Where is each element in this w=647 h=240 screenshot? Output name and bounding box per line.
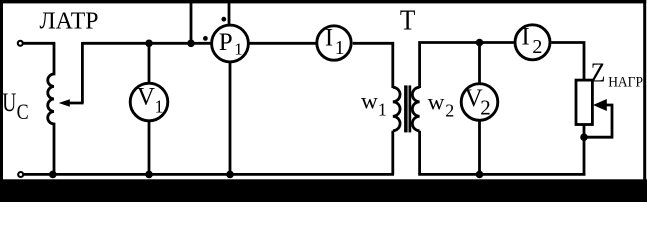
svg-text:1: 1 — [378, 100, 387, 120]
svg-text:2: 2 — [532, 36, 542, 58]
terminal X2 (bottom source terminal) — [18, 172, 23, 177]
node bottom of V1 branch — [145, 171, 153, 179]
svg-text:w: w — [361, 89, 378, 114]
caption bar — [0, 179, 647, 202]
transformer secondary winding w2 — [412, 87, 419, 131]
wire w1 bottom to bottom bus — [391, 131, 394, 175]
svg-text:U: U — [2, 88, 16, 117]
polarity dot upper (P1) — [221, 17, 226, 22]
wattmeter P1 current-coil loop left leg — [190, 1, 193, 43]
wire top bus (wiper to wattmeter) — [82, 42, 212, 45]
label UC — [2, 88, 28, 124]
svg-text:ЛАТР: ЛАТР — [40, 8, 99, 34]
svg-text:2: 2 — [480, 96, 491, 120]
node top of V1 branch — [145, 40, 153, 48]
wire P1 voltage branch down — [229, 62, 232, 174]
svg-text:НАГР: НАГР — [608, 74, 643, 90]
svg-text:1: 1 — [234, 39, 243, 58]
wattmeter P1 — [212, 25, 249, 62]
wire load bottom to bottom bus — [583, 124, 586, 175]
wire w2 bottom to secondary bottom bus — [418, 131, 421, 176]
node top of V2 branch — [476, 39, 484, 47]
svg-text:V: V — [137, 84, 155, 111]
svg-text:I: I — [325, 25, 333, 52]
wire bottom bus primary — [24, 173, 394, 176]
svg-text:1: 1 — [155, 96, 164, 116]
wire X1 to autotransformer top — [23, 42, 55, 45]
node P1 loop on top bus — [187, 40, 195, 48]
wire bottom bus secondary — [418, 173, 585, 176]
polarity dot left (P1) — [203, 36, 208, 41]
node bottom of P1 branch — [226, 171, 234, 179]
node load wiper tap — [580, 133, 588, 141]
terminal X1 (top source terminal) — [18, 41, 23, 46]
load wiper arrow loop — [584, 99, 612, 137]
autotransformer wiper arrow — [59, 99, 84, 107]
autotransformer winding (ЛАТР coil) — [48, 42, 54, 175]
svg-text:T: T — [400, 6, 416, 37]
wire V2 branch — [478, 43, 481, 175]
left border frame — [0, 0, 3, 180]
svg-text:w: w — [428, 89, 445, 114]
node bottom of V2 branch — [476, 171, 484, 179]
transformer core — [404, 85, 411, 132]
voltmeter V1 — [130, 83, 168, 121]
svg-text:C: C — [17, 99, 29, 124]
svg-text:1: 1 — [335, 38, 345, 59]
label Z НАГР — [591, 58, 643, 91]
voltmeter V2 — [461, 84, 498, 121]
svg-text:2: 2 — [445, 101, 454, 121]
label w1 — [361, 89, 387, 120]
svg-text:I: I — [521, 24, 529, 51]
node autotransformer bottom — [49, 171, 57, 179]
ammeter I2 — [515, 24, 550, 60]
svg-text:Рис. 7.1. Схема лабораторной у: Рис. 7.1. Схема лабораторной установки д… — [96, 182, 586, 197]
wire V1 branch — [148, 43, 151, 174]
ammeter I1 — [317, 25, 351, 61]
wattmeter P1 current-coil loop right leg — [228, 1, 231, 26]
transformer primary winding w1 — [393, 87, 400, 131]
wire I2 to load — [551, 43, 584, 81]
wire I1 to transformer primary — [353, 43, 393, 88]
load impedance ZНАГР (rheostat body) — [576, 80, 592, 124]
top border frame — [0, 0, 646, 3]
wire P1 to I1 — [249, 42, 316, 45]
svg-text:P: P — [219, 29, 233, 56]
wire transformer secondary top — [420, 43, 514, 89]
wire wiper up to top bus — [81, 42, 84, 103]
right border frame — [643, 0, 646, 180]
label w2 — [428, 89, 455, 120]
